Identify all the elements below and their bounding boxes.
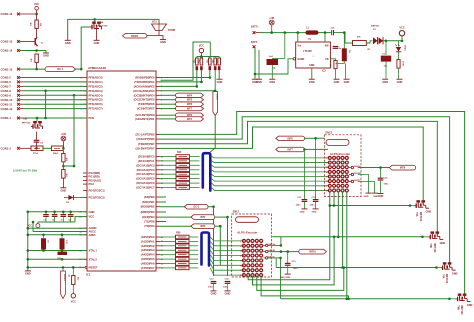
wire L1 to SW node [319,32,331,34]
svg-text:PF0(ADC0): PF0(ADC0) [89,76,103,80]
resistor R8 horizontal video [51,146,63,155]
resistor R10-8 [160,186,200,190]
wire CON1-6 to IC1 [23,81,87,83]
svg-text:GND: GND [373,196,378,198]
svg-text:IRF7103: IRF7103 [460,305,463,315]
svg-text:270R: 270R [401,61,403,66]
transistor T3A IRF7103 T5 position [409,200,432,222]
node junction OC-1 row [35,68,38,71]
svg-text:PF1(ADC1): PF1(ADC1) [89,80,103,84]
ground symbol R2fb [334,79,340,84]
LED1 with series resistor [395,41,405,52]
ground symbol C11 [300,209,308,214]
wire pull-up rail [197,56,219,58]
svg-text:CON1-14: CON1-14 [1,49,13,53]
wire XTAL2 row [28,258,87,260]
wire RESET row [28,266,85,268]
svg-text:OC-1: OC-1 [57,67,64,71]
capacitor C2 10u polarized [381,41,391,79]
resistor R7 horizontal video [31,146,43,155]
net label INT3 [160,224,215,229]
capacitor C7 decoupling [61,211,67,223]
node junction Vin on rail [297,31,300,34]
wire LED1 to R2led [398,52,400,60]
svg-text:(SCL/INT0)PD0: (SCL/INT0)PD0 [136,113,155,117]
wire T2A drain to speaker net [68,19,95,40]
svg-text:GND: GND [94,41,100,45]
svg-text:IRF7103: IRF7103 [419,212,422,222]
svg-text:(DC7/A15)PC7: (DC7/A15)PC7 [136,186,155,190]
svg-text:INT6: INT6 [187,103,193,106]
resistor R10-4 [160,168,200,172]
svg-text:CON1-4: CON1-4 [1,116,12,120]
connector pin BATT- [251,41,258,48]
resistor R30-7 [160,262,198,266]
wire pull-up R15 down to PE0 row [209,70,211,77]
wire IC right stub rows no-connect [160,196,166,198]
node junction XTAL2 riser [27,258,30,261]
wire PE1 row from IC to R14 [160,81,201,83]
node junction staircase 4 [347,298,350,301]
svg-text:INT5: INT5 [187,99,193,102]
svg-text:VCC: VCC [34,3,39,6]
ground symbol C16 [378,194,384,199]
net label INT6 [176,102,204,106]
supply symbol +UB battery [269,17,274,25]
svg-text:(OC3A/AIN1)PE3: (OC3A/AIN1)PE3 [133,89,155,93]
svg-text:PIEZO: PIEZO [131,35,138,38]
connector pin CON1-3 video row y148 [1,147,32,151]
resistor R30-4 [160,248,198,252]
resistor R12 10k vertical [62,170,69,179]
resistor R9 4k7 pull-up [69,267,80,284]
svg-text:GND: GND [160,40,166,44]
svg-text:GND: GND [440,242,446,245]
ground symbol LT1300 [309,79,315,84]
svg-text:SG1: SG1 [152,21,157,24]
node junction AREF riser [27,234,30,237]
diode D1 BAT54C dual schottky [371,25,383,45]
node junction staircase 1 [329,204,332,207]
net label MISO vertical arrow [213,70,218,115]
node junction RESET riser [27,266,30,269]
svg-text:GND: GND [211,292,217,296]
resistor R30-8 [160,266,198,270]
wire ENC2 terminal A to INT label net [358,167,390,169]
wire ENC2 terminal C to ground [358,182,375,193]
wire left ground riser [27,212,29,268]
node junction T2A drain [93,18,96,21]
net label OC-2 [160,204,208,209]
rotary encoder ENC1 ALPS-Encoder [232,211,276,278]
net label INT0 [176,113,204,117]
wire bus entry to ENC2 pad row 6 [212,179,330,182]
svg-text:(DC3/A11)PC3: (DC3/A11)PC3 [137,168,155,172]
svg-text:VCC: VCC [71,301,76,304]
wire SW pin up to rail [324,33,326,42]
resistor R10-2 [160,159,200,163]
IC1 ATMEGA128 microcontroller body [86,66,156,277]
svg-text:PG1(RD): PG1(RD) [89,175,100,179]
svg-text:CON1-5: CON1-5 [1,76,12,80]
svg-text:ENC2: ENC2 [326,131,333,134]
inductor L1 10u [305,27,318,41]
capacitor C3 2n2 on SW rail [330,27,335,35]
wire BATT- down to ground [254,48,256,79]
node junction C13 riser top [212,205,215,208]
svg-text:100n: 100n [293,268,299,270]
node junction C11 tap [303,148,306,151]
svg-text:GND: GND [217,80,223,84]
node junction C15 tap [286,250,289,253]
svg-text:T4A: T4A [442,274,445,279]
node junction ENC1 C riser [279,257,282,260]
svg-text:LT1300: LT1300 [303,49,312,53]
node junction divider top [62,147,65,150]
svg-text:100n: 100n [208,287,214,289]
wire INT2 to C14 riser [215,216,228,218]
wire FB feedback node [330,59,335,61]
svg-text:(A65D)PA6: (A65D)PA6 [141,262,155,266]
connector pin CON1-13 row y69 [1,67,23,71]
wire CON1-8 to IC1 [23,90,87,92]
node junction R14-PF1 [200,81,203,84]
svg-text:T2B: T2B [23,119,28,121]
svg-text:GND: GND [61,188,67,192]
svg-text:PF2(ADC2): PF2(ADC2) [89,84,103,88]
node junction C14 riser top [226,216,229,219]
ground symbol below divider [60,188,66,193]
node junction ENC1 B riser [280,250,283,253]
node junction rail at VCC [200,55,203,58]
svg-text:IRF7103: IRF7103 [445,274,448,284]
wire PE0 row from IC to R15 [160,77,210,79]
svg-text:PEN: PEN [89,116,94,120]
wire C14 riser down [227,217,229,276]
wire C13 riser down [213,207,215,276]
svg-text:PG3: PG3 [89,182,95,186]
svg-text:GND: GND [65,41,71,45]
transistor T4B IRF7103 T8 position [448,294,472,316]
ground symbol pull-up R17 [217,79,223,84]
net label RESET vertical arrow [61,267,66,298]
IC1 left pins TOSC1 TOSC2 [83,189,105,200]
resistor R30-1 [160,235,198,239]
IC1 left pins PF0-PF7 with stubs [81,76,103,111]
ground symbol LED1 [397,79,403,84]
wire AVCC row [33,231,87,233]
ground symbol C2 [382,79,388,84]
wire ENC2 column 3 down to T6 gate net [337,193,339,237]
net label OC-1 [45,67,75,72]
net label INT4 [176,93,204,97]
wire T2A source to ground [96,29,98,41]
wire PE row to INT6 label [160,103,176,105]
svg-text:PG3(TOSC2): PG3(TOSC2) [89,196,105,200]
svg-text:(2D-3N/PT)PD7: (2D-3N/PT)PD7 [136,146,155,150]
wire VCC rail row222 [38,221,75,223]
wire T2A drain junction to SG1 [95,19,159,24]
wire AREF row [28,234,87,236]
wire ENC1 terminal C to riser down [268,258,276,268]
IC1 left pin /RESET with inverting bubble [80,266,99,269]
IC1 right pins PC0-PC7 [136,155,163,190]
node junction VCC tap [401,40,404,43]
svg-text:(MISO)PB3: (MISO)PB3 [141,210,155,214]
transistor T2A IRF7103 [90,21,108,30]
ground symbol C13 [211,291,217,296]
resistor R10-1 [160,155,200,159]
net label PIEZO [123,34,147,38]
node junction AGND riser [27,227,30,230]
net label INT2 [160,215,215,220]
wire pull-up R13 down to PF2 row [196,70,198,86]
svg-text:BATT-: BATT- [251,41,258,44]
node junction PE3 riser [214,90,217,93]
node junction ENC2A C16 tap [379,166,382,169]
svg-text:PG4(TOSC1): PG4(TOSC1) [89,189,105,193]
node junction VCC-pin [35,13,38,16]
svg-text:GND GND: GND GND [280,277,291,279]
connector pin CON1-7 row [1,85,24,89]
wire INT3 riser [215,225,221,227]
wire driver net 1 IC to transistor drain [160,112,465,294]
wire driver net 4 IC to transistor drain [160,127,423,200]
node junction R13-PF2 [196,85,199,88]
svg-text:(2C3A/PT)PB6: (2C3A/PT)PB6 [136,137,155,141]
svg-text:(T3B/NT)PB7: (T3B/NT)PB7 [138,142,155,146]
wire bus entry to ENC2 pad row 8 [212,188,330,191]
resistor R3fb vertical solid from SW [336,31,351,63]
svg-text:(OC3C/INT5)PE5: (OC3C/INT5)PE5 [134,98,155,102]
connector pin CON1-11 row [1,102,24,106]
wire bus entry to ENC1 pad row 8 [210,268,244,275]
wire OC-1 label to riser [76,68,82,70]
svg-text:PF7(ADC7): PF7(ADC7) [89,107,103,111]
ground symbol ENC2 C [372,193,379,198]
crystal Q1 16MHz [57,252,67,261]
connector pin CON1-16 row y14 [1,12,37,16]
connector pin CON1-9 row [1,94,24,98]
svg-text:(OC3B/INT4)PE4: (OC3B/INT4)PE4 [134,93,155,97]
resistor R30-2 [160,240,198,244]
wire ENC2 column 4 down to T7 gate net [342,193,344,268]
IC1 right pins PB5 PB6 PB7 PD7 driver outputs [136,132,160,150]
wire T5 gate line from ENC2 column [330,193,410,206]
wire PD row to INT0 label [160,114,176,116]
node junction SHDN BATT- [254,73,257,76]
wire CON1-11 to IC1 [23,103,87,105]
IC1 left pins GND VCC AGND AVCC AREF [80,210,97,237]
node junction XTAL1 C9 [42,249,45,252]
svg-text:VCC: VCC [199,44,204,47]
wire T2B source down to C8 [36,132,38,140]
svg-text:GND: GND [452,273,458,276]
svg-text:(A05D)PA0: (A05D)PA0 [141,235,155,239]
svg-text:(IC3/INT7)PE7: (IC3/INT7)PE7 [137,107,155,111]
capacitor C8 [34,140,44,144]
svg-text:OC-2: OC-2 [193,206,199,209]
svg-text:MISO: MISO [215,94,217,100]
svg-text:+UB: +UB [269,17,274,20]
svg-text:GND: GND [378,194,384,198]
wire CON1-12 to IC1 [23,108,87,110]
connector pin CON1-5 row [1,76,24,80]
svg-text:GND: GND [467,304,473,307]
svg-text:GND: GND [364,196,369,198]
svg-text:(A35D)PA3: (A35D)PA3 [141,248,155,252]
svg-text:CON1-7: CON1-7 [1,85,12,89]
svg-text:R8x2: R8x2 [53,153,59,155]
node junction XTAL2 crystal [61,258,64,261]
wire SHDN to BATT- net [255,59,293,74]
svg-text:(SS)PB0: (SS)PB0 [144,195,155,199]
wire ENC2 column 5 down to T8 gate net [346,193,348,299]
svg-text:IC1: IC1 [86,273,91,277]
capacitor C12 100n [310,138,319,208]
ground symbol left riser [25,267,31,275]
svg-text:Vin: Vin [298,45,302,48]
resistor R13 10k pull-up vertical [194,57,198,71]
wire VCC junction down to R3 top [36,14,38,20]
bus B2 lower to ENC1 [202,233,210,266]
node junction ENC2 column T8 [346,298,349,301]
svg-text:INT2: INT2 [200,216,206,219]
node junction staircase 2 [333,236,336,239]
wire T6 gate line [272,236,422,238]
svg-text:(A75D)PA7: (A75D)PA7 [141,266,155,270]
svg-text:+UB: +UB [61,133,66,136]
svg-text:GND: GND [309,64,315,67]
wire C8 to video row [36,142,38,148]
resistor R4 10k vertical between rows [31,54,38,63]
connector pin BATT+ [251,26,259,34]
wire AGND row [28,227,87,229]
VCC supply symbol decoupling rail [27,222,40,228]
ground symbol C1 [269,79,275,84]
capacitor C11 100n [296,149,308,208]
wire INT6 label to ENC2 top pin [305,137,325,139]
capacitor C13 100n [208,279,216,291]
node junction ENC1 A riser [280,244,283,247]
transistor T2B IRF7103 [22,118,43,129]
resistor R30-5 [160,253,198,257]
capacitor C15 100n [285,252,298,274]
wire CON1-7 to IC1 [23,85,87,87]
wire ENC1 terminal B to INT10 label [268,251,299,253]
supply symbol +UB video pull-up [61,133,66,141]
svg-text:T2A: T2A [99,21,104,24]
connector pin CON1-12 row [1,107,24,111]
VCC supply symbol at R9 [71,285,76,304]
IC1 right pins PB0-PB4 PD6 PD4 [141,195,160,228]
wire Vin pin up to rail [297,33,299,42]
node junction R9 tap [72,266,75,269]
svg-text:CON1-12: CON1-12 [1,107,13,111]
wire CON1-10 to IC1 [23,99,87,101]
VCC supply symbol pull-up cluster [199,44,204,52]
VCC supply symbol output [399,27,405,41]
svg-text:T4B: T4B [457,305,460,310]
wire CON1-9 to IC1 [23,94,87,96]
transistor T3B IRF7103 T6 position [421,231,445,253]
resistor R10-3 [160,164,200,168]
wire pull-up R14 down to PF1 row [200,70,202,82]
wire divider top to R11 [62,148,64,153]
wire ENC2 column 2 stub to T5 gate net [333,193,335,206]
wire T8 gate line [281,298,450,300]
wire PE row to INT4 label [160,94,176,96]
wire +UB to BATT+ rail [271,25,273,33]
svg-text:AREF: AREF [89,233,97,237]
svg-text:CON1-10: CON1-10 [1,98,13,102]
wire bus entry to ENC2 pad row 1 [212,157,330,158]
svg-text:(TXD0/PDO)PE1: (TXD0/PDO)PE1 [134,80,155,84]
wire bus entry to ENC1 pad row 4 [210,250,244,255]
svg-text:VCC: VCC [89,215,95,219]
node junction rail left [27,211,30,214]
wire PE3 row from IC to MISO riser [160,90,215,92]
ground symbol C12 [312,209,319,214]
node junction AVCC link [32,221,35,224]
wire R4 bottom to OC-1 row [36,63,38,70]
ground symbol C15 [280,274,291,279]
resistor R15 10k pull-up vertical [207,57,211,71]
capacitor C9 AREF solid [41,234,49,251]
wire ENC1 bottom column 1 staircase to gate net [248,206,330,280]
ground symbol BATT- [252,79,258,84]
svg-text:INT4: INT4 [187,94,193,97]
wire bus entry to ENC2 pad row 7 [212,183,330,186]
node junction riser meets PEN row [44,117,47,120]
node junction C1 on rail [284,31,287,34]
wire R2fb to ground [335,69,337,79]
svg-text:F/TMB: F/TMB [168,30,175,32]
node junction +UB on rail [270,31,273,34]
svg-text:(DC4/A12)PC4: (DC4/A12)PC4 [136,172,155,176]
wire R3 to T1 collector [36,28,38,36]
node junction ENC2 column T6 [337,236,340,239]
svg-text:(MOSI)PB2: (MOSI)PB2 [141,205,155,209]
wire between video resistors [43,147,51,149]
svg-text:LED1: LED1 [404,45,406,51]
ground symbol CON1-14 net [43,53,49,58]
svg-text:INT6: INT6 [288,137,294,140]
wire ENC1 terminal A up to T6 gate net [268,237,281,246]
svg-text:(T3/INT6)PE6: (T3/INT6)PE6 [138,102,155,106]
resistor R17 10k pull-up vertical [217,57,221,71]
diode D2 at TOSC2 pin [64,195,83,204]
svg-text:GND: GND [300,211,305,213]
wire bus entry to ENC1 pad row 7 [210,264,244,271]
svg-text:GND: GND [89,210,95,214]
svg-text:INT7: INT7 [187,108,193,111]
ground symbol at SG1 [160,40,166,45]
svg-text:PF5(ADC5): PF5(ADC5) [89,98,103,102]
svg-text:CON1-9: CON1-9 [1,94,12,98]
node junction C2 tap [385,40,388,43]
IC1 left pin PEN [81,116,94,120]
svg-text:PG2(ALE): PG2(ALE) [89,178,102,182]
wire PE row to INT5 label [160,99,176,101]
svg-text:INT1: INT1 [187,118,193,121]
svg-text:CON1-13: CON1-13 [1,67,13,71]
wire riser x45.6 down to PEN row [45,91,47,118]
wire driver net 2 IC to transistor drain [160,117,450,262]
node junction divider tap feed [73,94,76,97]
rotary encoder ENC2 ALPS-Encoder [325,131,362,196]
resistor R30-3 [160,244,198,248]
